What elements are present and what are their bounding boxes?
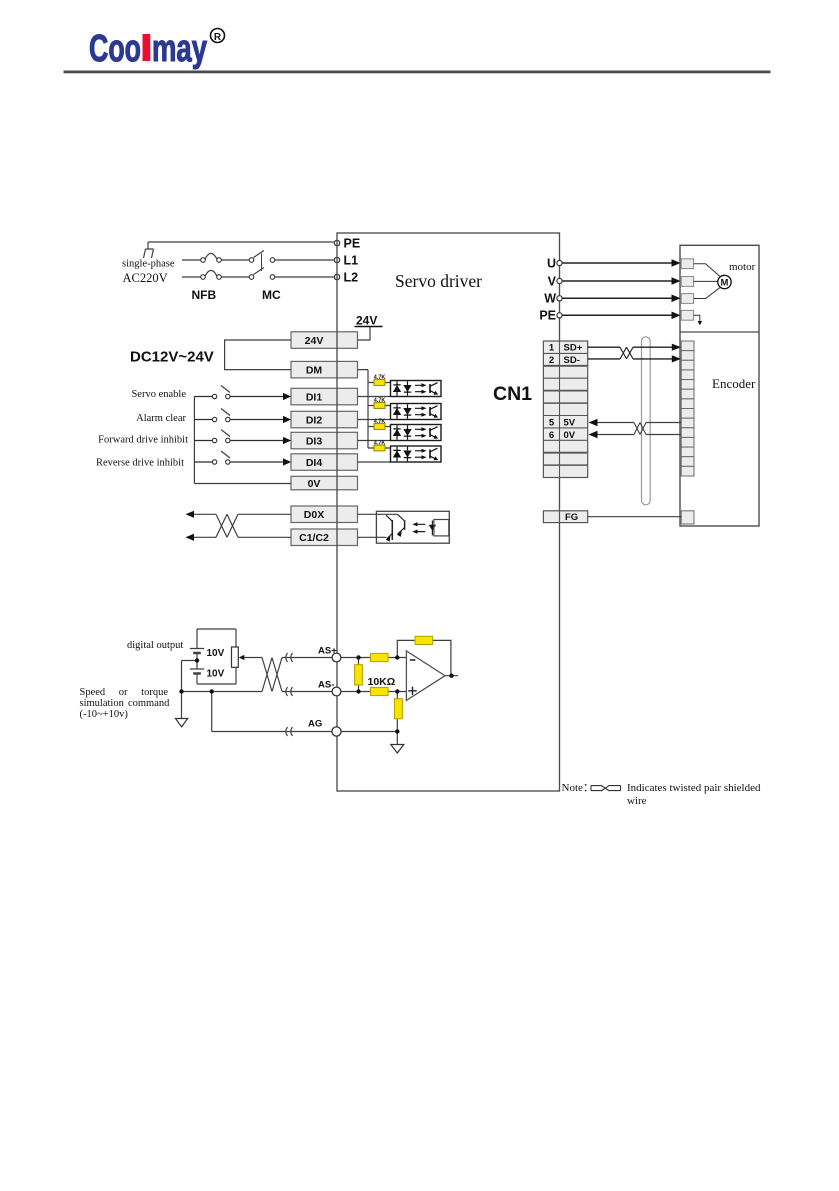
svg-text:C1/C2: C1/C2 — [299, 532, 329, 544]
svg-text:PE: PE — [344, 237, 361, 251]
svg-text:0V: 0V — [564, 430, 576, 441]
svg-text:motor: motor — [729, 261, 756, 273]
svg-text:MC: MC — [262, 288, 281, 302]
svg-text:DC12V~24V: DC12V~24V — [130, 349, 214, 366]
svg-text:Note：: Note： — [562, 782, 594, 794]
svg-text:Speed or torque: Speed or torque — [80, 687, 169, 698]
svg-text:Servo driver: Servo driver — [395, 271, 482, 291]
svg-text:U: U — [547, 256, 556, 270]
svg-text:D0X: D0X — [304, 509, 324, 521]
svg-text:0V: 0V — [308, 478, 321, 490]
svg-text:AG: AG — [308, 719, 322, 730]
svg-text:Forward drive inhibit: Forward drive inhibit — [98, 435, 188, 446]
svg-text:DI1: DI1 — [306, 391, 323, 403]
svg-text:NFB: NFB — [192, 288, 217, 302]
svg-text:Coo: Coo — [89, 28, 141, 70]
svg-text:5: 5 — [549, 417, 555, 428]
svg-text:R: R — [214, 32, 222, 43]
svg-text:AC220V: AC220V — [123, 271, 168, 285]
svg-text:AS-: AS- — [318, 680, 334, 691]
svg-text:2: 2 — [549, 355, 554, 366]
svg-text:Encoder: Encoder — [712, 376, 756, 391]
svg-text:digital output: digital output — [127, 640, 183, 651]
svg-text:PE: PE — [539, 309, 556, 323]
svg-text:DM: DM — [306, 364, 323, 376]
svg-text:Servo enable: Servo enable — [131, 389, 186, 400]
svg-text:24V: 24V — [356, 313, 377, 327]
svg-text:(-10~+10v): (-10~+10v) — [80, 709, 129, 720]
svg-text:FG: FG — [565, 512, 578, 523]
svg-text:may: may — [152, 28, 207, 70]
svg-text:V: V — [548, 274, 557, 288]
svg-text:10V: 10V — [207, 669, 225, 680]
svg-text:W: W — [544, 292, 556, 306]
svg-text:SD+: SD+ — [564, 343, 583, 354]
svg-text:AS+: AS+ — [318, 646, 337, 657]
svg-text:single-phase: single-phase — [122, 259, 175, 270]
svg-text:10KΩ: 10KΩ — [368, 676, 396, 688]
svg-text:Reverse drive inhibit: Reverse drive inhibit — [96, 458, 184, 469]
svg-text:L1: L1 — [344, 254, 359, 268]
svg-text:wire: wire — [627, 795, 647, 807]
svg-text:M: M — [721, 278, 729, 289]
svg-text:Alarm clear: Alarm clear — [136, 413, 186, 424]
svg-text:DI3: DI3 — [306, 435, 323, 447]
svg-text:simulation command: simulation command — [80, 698, 171, 709]
svg-text:CN1: CN1 — [493, 383, 532, 405]
svg-text:L2: L2 — [344, 271, 359, 285]
svg-text:24V: 24V — [305, 335, 324, 347]
svg-text:10V: 10V — [207, 648, 225, 659]
svg-text:DI2: DI2 — [306, 414, 323, 426]
svg-text:5V: 5V — [564, 417, 576, 428]
svg-text:Indicates twisted pair shielde: Indicates twisted pair shielded — [627, 782, 761, 794]
svg-text:1: 1 — [549, 343, 555, 354]
svg-text:DI4: DI4 — [306, 457, 323, 469]
svg-text:6: 6 — [549, 430, 554, 441]
svg-text:SD-: SD- — [564, 355, 580, 366]
